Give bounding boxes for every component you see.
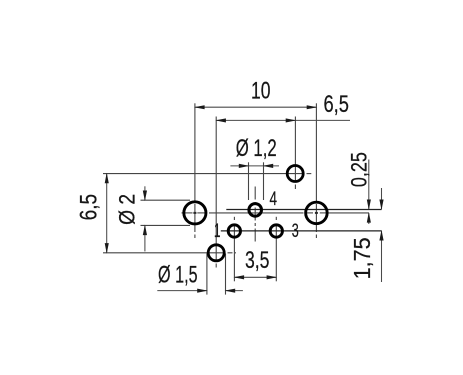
svg-text:1: 1 xyxy=(214,221,221,242)
svg-text:3: 3 xyxy=(292,221,299,242)
svg-text:3,5: 3,5 xyxy=(245,247,270,274)
svg-text:Ø 1,2: Ø 1,2 xyxy=(236,135,277,162)
svg-text:0,25: 0,25 xyxy=(347,152,372,187)
svg-text:1,75: 1,75 xyxy=(349,237,375,279)
svg-text:Ø 2: Ø 2 xyxy=(115,194,140,225)
svg-text:10: 10 xyxy=(251,78,271,105)
svg-text:Ø 1,5: Ø 1,5 xyxy=(158,261,198,288)
svg-text:6,5: 6,5 xyxy=(323,91,349,118)
svg-text:4: 4 xyxy=(269,189,277,210)
svg-text:6,5: 6,5 xyxy=(75,194,102,221)
